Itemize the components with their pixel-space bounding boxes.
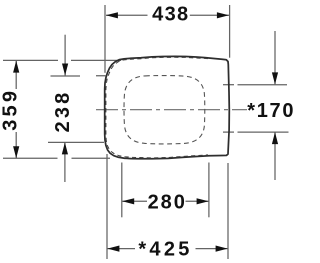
dimension line 425 <box>107 248 227 250</box>
dimension line 438 <box>106 14 229 16</box>
arrowhead 425 left <box>107 246 119 252</box>
extension line 280 right <box>208 163 210 218</box>
arrowhead 438 left <box>106 12 118 18</box>
dimension line 359 <box>15 61 17 159</box>
extension line 438 right <box>229 5 231 58</box>
arrowhead 425 right <box>216 246 228 252</box>
seat lid hidden edge (dashed, hugs outline except hinge side) <box>106 57 208 158</box>
extension line 425 left <box>106 154 108 259</box>
extension line 280 left <box>121 163 123 218</box>
extension line 170 upper <box>238 84 288 86</box>
center line <box>96 109 247 111</box>
arrow shaft 170 bottom <box>274 132 276 180</box>
extension line 238 top <box>51 75 106 77</box>
arrowhead 280 right <box>197 198 209 204</box>
svg-text:*425: *425 <box>138 239 192 261</box>
svg-text:*170: *170 <box>247 100 295 122</box>
hinge tick upper <box>223 84 234 86</box>
arrowhead 170 up <box>272 132 278 144</box>
arrowhead 238 up <box>62 142 68 154</box>
seat outer outline <box>105 56 230 158</box>
svg-text:280: 280 <box>148 192 187 214</box>
arrow shaft 238 bottom <box>64 142 66 182</box>
arrow shaft 170 top <box>274 31 276 84</box>
extension line 425 right <box>227 163 229 259</box>
arrowhead 359 down <box>13 146 19 158</box>
arrowhead 359 up <box>13 61 19 73</box>
arrowhead 438 right <box>217 12 229 18</box>
extension line 438 left <box>104 5 106 73</box>
extension line 170 lower <box>238 131 289 133</box>
hinge tick lower <box>223 131 234 133</box>
dimension line 280 <box>122 200 208 202</box>
seat opening (dashed rounded rect) <box>124 76 205 144</box>
arrowhead 280 left <box>122 198 134 204</box>
arrow shaft 238 top <box>64 35 66 76</box>
arrowhead 170 down <box>272 72 278 84</box>
extension line 359 top <box>3 59 121 61</box>
svg-text:359: 359 <box>0 88 22 131</box>
arrowhead 238 down <box>62 64 68 76</box>
extension line 238 bottom <box>48 141 104 143</box>
extension line 359 bottom <box>3 157 110 159</box>
svg-text:438: 438 <box>152 4 189 26</box>
svg-text:238: 238 <box>52 90 74 133</box>
